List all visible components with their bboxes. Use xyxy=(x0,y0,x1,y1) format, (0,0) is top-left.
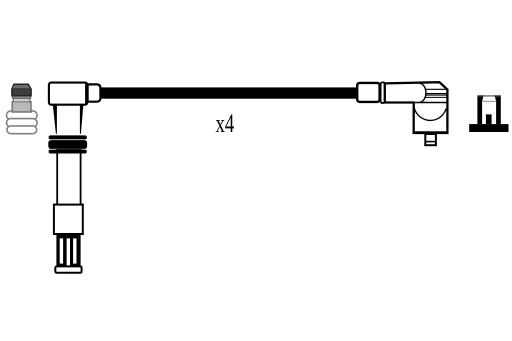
boot tip slot right xyxy=(73,238,76,263)
mount symbol taper right xyxy=(495,95,497,101)
mount symbol right pillar xyxy=(496,95,501,124)
connector shading line 1 xyxy=(425,88,447,90)
terminal nut dark band xyxy=(13,95,31,98)
connector body waist line xyxy=(414,102,447,104)
mount symbol top line xyxy=(478,95,501,97)
terminal nut body cylinder xyxy=(12,102,31,112)
svg-text:x4: x4 xyxy=(216,109,235,138)
terminal nut rib top xyxy=(7,126,37,134)
connector cylinder end ellipse xyxy=(419,83,426,102)
terminal nut cap top face xyxy=(13,85,30,88)
boot shaft xyxy=(57,150,80,206)
terminal nut light band xyxy=(13,98,29,102)
boot tip spline body xyxy=(56,233,80,266)
boot collar rib bottom xyxy=(49,150,87,154)
terminal nut rib bottom xyxy=(7,111,38,120)
boot tip slot left xyxy=(60,238,63,263)
connector block bottom edge xyxy=(413,131,449,134)
mount symbol left pillar xyxy=(477,95,482,124)
connector ferrule xyxy=(357,83,379,102)
mount symbol base xyxy=(469,124,508,132)
boot head right thick edge xyxy=(85,83,88,104)
boot collar rib top xyxy=(49,135,87,139)
connector elbow arc xyxy=(414,105,446,121)
connector collar bar xyxy=(381,82,385,103)
ignition cable xyxy=(100,87,358,98)
boot tip foot xyxy=(55,266,81,272)
connector shading line 3 xyxy=(426,94,447,96)
boot neck right wedge xyxy=(80,105,83,133)
boot collar rib middle xyxy=(48,140,87,149)
mount symbol slot line xyxy=(482,100,496,102)
connector shading line 4 xyxy=(425,96,447,98)
boot tip slot middle xyxy=(67,238,70,266)
connector body xyxy=(385,82,448,132)
terminal nut rib middle xyxy=(7,119,38,127)
boot neck left wedge xyxy=(53,105,57,133)
mount symbol contact tongue xyxy=(486,114,492,124)
boot ferrule xyxy=(88,84,101,101)
terminal nut cap xyxy=(12,84,31,96)
boot head xyxy=(49,83,87,105)
connector shading line 2 xyxy=(426,93,447,95)
connector terminal tip xyxy=(425,134,436,145)
connector tip band xyxy=(425,141,437,143)
mount symbol taper left xyxy=(482,95,484,101)
boot lower block xyxy=(54,205,83,234)
